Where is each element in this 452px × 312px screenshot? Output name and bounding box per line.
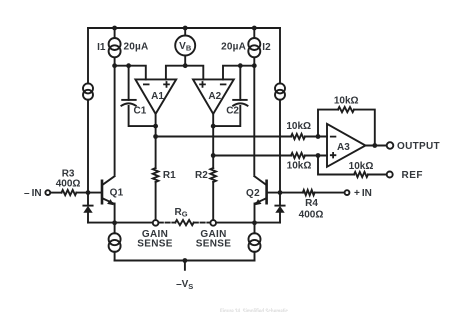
wire A1 output to A3 inverting input [156,136,327,138]
terminal REF [387,172,393,178]
svg-text:10kΩ: 10kΩ [334,95,359,106]
wire I1 to A1 inverting input [115,66,146,80]
wire VB stub bottom [184,56,186,66]
current source I2 [248,38,260,57]
svg-text:20µA: 20µA [124,41,149,52]
wire I2 branch vertical [253,28,255,66]
svg-text:+ IN: + IN [354,188,372,199]
node Q2 base [278,190,283,195]
resistor 10k noninverting input [291,153,305,158]
current source right tail [249,233,261,252]
wire C1 bottom lead to A1 output [129,106,156,126]
svg-text:10kΩ: 10kΩ [287,160,312,171]
wire R3 to Q1 base node [76,192,101,194]
node A2 output / C2 [211,124,216,129]
svg-text:Figure 34. Simplified Schemati: Figure 34. Simplified Schematic [220,309,288,312]
node C2 tap [238,63,243,68]
node Q1 emitter / rail [112,220,117,225]
wire Q2 base node to diode [279,193,281,206]
node A1 output / A3 wire [153,134,158,139]
wire A3 feedback loop [318,110,375,146]
A3 plus mark [330,152,336,158]
svg-text:R4: R4 [305,198,318,209]
node VB bottom [183,63,188,68]
svg-text:400Ω: 400Ω [56,178,81,189]
A2 plus mark [199,81,206,88]
resistor R2 [210,168,216,182]
wire C2 bottom lead to A2 output [213,106,240,126]
svg-text:A3: A3 [337,142,350,153]
A3 minus mark [330,136,336,138]
wire Q2 emitter vertical [254,204,256,223]
svg-text:–VS: –VS [176,279,193,291]
node -VS tap [183,258,188,263]
node C1 tap [126,63,131,68]
wire bottom -VS rail [115,260,255,262]
wire VB bottom to A1/A2 noninverting inputs [166,66,203,80]
wire left tail current source leads [114,223,116,261]
A1 plus mark [163,81,170,88]
svg-text:A1: A1 [151,91,164,102]
current source left tail [109,233,121,252]
svg-text:A2: A2 [208,91,221,102]
svg-text:VB: VB [179,41,192,53]
svg-text:C1: C1 [134,106,147,117]
wire Q2 collector vertical [253,66,255,175]
svg-text:I2: I2 [262,42,271,53]
wire I2 to A2 inverting input [223,66,254,80]
resistor 10k inverting input [291,134,305,139]
svg-text:– IN: – IN [24,188,42,199]
wire R2 bottom to gain sense [212,182,214,220]
svg-text:10kΩ: 10kΩ [286,121,311,132]
wire left bias branch (top rail to Q1 base node) [87,28,89,193]
svg-text:R2: R2 [195,170,208,181]
current source right bias [275,83,285,99]
terminal -IN [45,190,50,195]
node I2 / collector [252,63,257,68]
svg-text:C2: C2 [226,106,239,117]
svg-text:SENSE: SENSE [137,239,172,250]
svg-text:400Ω: 400Ω [299,209,324,220]
wire I1 branch vertical [114,28,116,66]
node feedback / inverting input [316,134,321,139]
node top rail / I2 [252,26,257,31]
resistor R3 [62,190,77,195]
node REF / noninverting input [316,153,321,158]
svg-text:R1: R1 [163,170,176,181]
capacitor C1 [121,100,135,106]
wire R1 bottom to gain sense [155,182,157,220]
node top rail / VB [183,26,188,31]
wire A3 output [366,145,387,147]
wire Q1 collector vertical [114,66,116,175]
wire REF branch [318,156,387,175]
node A1 output / C1 [153,124,158,129]
node Q2 emitter / rail [252,220,257,225]
wire top supply rail [88,27,280,29]
wire right tail current source leads [254,223,256,261]
transistor Q1 [102,176,115,205]
wire VB stub top [184,28,186,36]
wire Q1 emitter vertical [114,204,116,223]
transistor Q2 [254,176,266,205]
wire C1 top lead [128,66,130,100]
diode left input clamp [83,206,92,213]
svg-text:RG: RG [175,207,188,219]
resistor R1 [153,168,159,182]
terminal OUTPUT [387,142,394,149]
wire C2 top lead [239,66,241,100]
svg-text:Q1: Q1 [110,188,124,199]
svg-text:OUTPUT: OUTPUT [397,141,440,152]
voltage source VB [175,36,195,56]
wire A2 output to A3 noninverting input [213,155,327,157]
A1 minus mark [143,83,150,85]
wire -IN to R3 [50,192,61,194]
resistor 10k feedback [338,107,354,112]
op-amp A1 [135,79,176,114]
resistor R4 [303,190,315,195]
wire +IN to R4 [315,192,345,194]
resistor RG with dashed leads [159,220,210,225]
svg-text:Q2: Q2 [246,188,260,199]
svg-text:20µA: 20µA [221,41,246,52]
resistor 10k REF [354,172,368,177]
node Q1 base [86,190,91,195]
wire emitter rail left [88,222,153,224]
node A3 output / feedback [372,143,377,148]
A2 minus mark [220,83,227,85]
wire right bias branch (top rail to Q2 base node) [279,28,281,193]
terminal gain sense left [153,220,159,226]
svg-text:REF: REF [402,170,424,181]
terminal +IN [345,190,350,195]
wire A2 output column to R2 [212,114,214,168]
current source I1 [109,38,121,57]
wire Q1 base node to diode [87,193,89,206]
node top rail / I1 [112,26,117,31]
op-amp A2 [193,79,234,114]
svg-text:I1: I1 [97,42,106,53]
node I1 / collector [112,63,117,68]
capacitor C2 [233,100,247,106]
wire right diode to emitter rail [279,212,281,222]
wire R4 to Q2 base node [267,192,303,194]
current source left bias [83,83,93,99]
svg-text:SENSE: SENSE [196,239,231,250]
svg-text:10kΩ: 10kΩ [349,161,374,172]
diode right input clamp [275,206,284,213]
op-amp A3 [327,124,366,167]
terminal gain sense right [210,220,216,226]
wire emitter rail right [216,222,280,224]
wire left diode to emitter rail [87,212,89,222]
wire -VS stub [184,261,186,270]
wire A1 output column to R1 [155,114,157,168]
node A2 output / A3 wire [211,153,216,158]
